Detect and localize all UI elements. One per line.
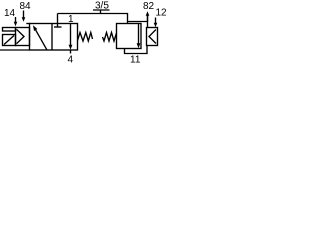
svg-text:1: 1: [68, 14, 74, 25]
svg-text:84: 84: [20, 1, 32, 12]
svg-text:3/5: 3/5: [95, 0, 109, 11]
svg-text:11: 11: [130, 55, 141, 65]
svg-text:14: 14: [4, 8, 16, 19]
svg-text:82: 82: [143, 1, 155, 12]
svg-text:4: 4: [68, 55, 74, 65]
svg-text:12: 12: [156, 8, 168, 19]
